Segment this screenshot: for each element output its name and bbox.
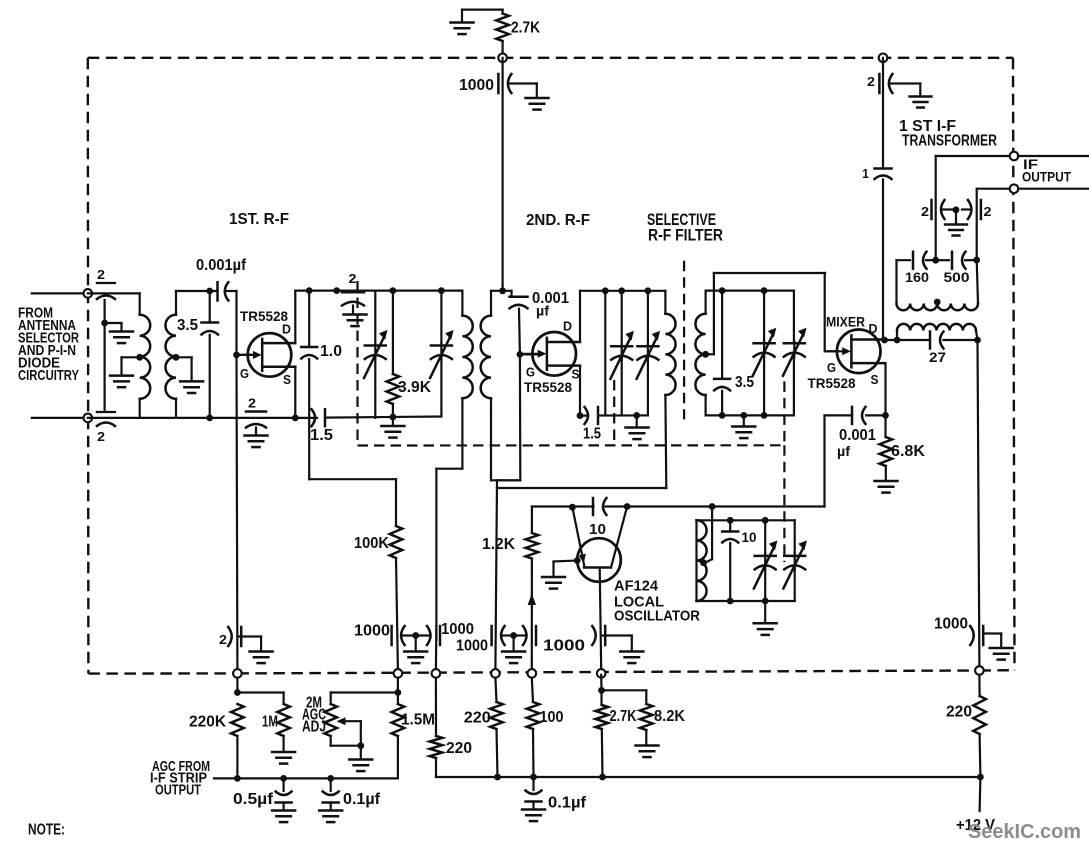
wire: 2nd drain riser — [579, 291, 581, 342]
node dot — [953, 206, 960, 213]
resistor 3.9K — [390, 287, 397, 294]
wire: 1st tank top rail — [295, 290, 462, 292]
wire: mixer output row — [885, 339, 930, 341]
svg-text:1.0: 1.0 — [320, 343, 342, 360]
wire: 2nd tank top rail — [580, 290, 665, 292]
svg-text:TR5528: TR5528 — [240, 308, 288, 324]
resistor 220 — [490, 702, 503, 729]
node dot: source join — [292, 415, 299, 422]
node dot: 2nd gate — [517, 351, 524, 358]
wire: 2nd bottom rail cont — [599, 414, 648, 416]
svg-text:2: 2 — [867, 74, 875, 89]
svg-text:1M: 1M — [262, 714, 278, 731]
wire: 220K drop — [236, 678, 238, 693]
wire: 220 drop — [435, 678, 437, 736]
node dot — [357, 742, 364, 749]
node A dot — [101, 320, 108, 327]
wire: filter bottom rail — [706, 414, 794, 416]
variable capacitor — [762, 517, 769, 524]
node: input feedthrough bottom — [84, 414, 93, 423]
arrow: injection direction — [528, 594, 536, 606]
resistor 2.7K — [600, 690, 602, 705]
inductor: antenna transformer primary — [139, 293, 141, 314]
svg-text:TR5528: TR5528 — [808, 375, 856, 391]
node: B+ feedthrough — [498, 54, 507, 63]
wire: secondary centre tap to ground — [173, 354, 180, 361]
capacitor 1.5 series — [597, 407, 600, 424]
wire: oscillator base drop — [600, 568, 602, 670]
node: feedthrough — [432, 669, 441, 678]
wire: 1st R-F gate lead — [237, 354, 254, 356]
svg-text:3.9K: 3.9K — [398, 379, 431, 396]
wire: IF output lower lead — [1018, 188, 1089, 190]
node dot — [977, 774, 984, 781]
wire: 2nd gate drop — [519, 354, 522, 480]
svg-text:2.7K: 2.7K — [511, 20, 540, 37]
wire: 1st tank bottom rail right — [325, 417, 441, 418]
node dot — [719, 412, 726, 419]
wire: tank feed — [711, 507, 713, 560]
svg-text:G: G — [526, 365, 535, 380]
svg-text:8.2K: 8.2K — [654, 708, 685, 725]
transistor TR5528 mixer — [837, 330, 881, 374]
svg-text:1000: 1000 — [543, 638, 585, 655]
svg-text:D: D — [869, 321, 878, 336]
svg-text:OUTPUT: OUTPUT — [1022, 169, 1071, 185]
ground — [245, 434, 268, 437]
capacitor 3.5 — [206, 288, 213, 295]
wire: feed down to 2nd R-F — [502, 58, 504, 291]
wire: gang dashed riser left — [356, 281, 358, 446]
wire: antenna stub top — [32, 292, 88, 294]
node: feedthrough — [491, 669, 500, 678]
svg-text:2: 2 — [219, 632, 227, 647]
inductor: 2nd tank coil — [664, 291, 666, 314]
wire: secondary left down — [896, 331, 898, 341]
wire: bottom shield dashed edge mid — [237, 671, 979, 674]
capacitor 1000 bypass osc base — [604, 626, 607, 645]
node: feedthrough — [528, 669, 537, 678]
ground — [110, 374, 133, 377]
svg-text:2: 2 — [97, 267, 105, 282]
wire: 1st R-F source riser — [294, 367, 296, 418]
wire: mixer drain lead — [883, 338, 885, 341]
wire: antenna stub bottom — [32, 417, 88, 419]
wire: 220 drop 2 — [495, 678, 496, 702]
node dot — [234, 689, 241, 696]
ground — [910, 95, 932, 98]
wire: cap drop osc feed — [531, 559, 533, 670]
svg-text:0.001µf: 0.001µf — [196, 257, 247, 274]
wire: tank box right — [977, 260, 978, 304]
capacitor 27 — [929, 332, 932, 349]
wire: mixer source lead — [885, 362, 886, 364]
svg-text:D: D — [563, 319, 572, 334]
node dot — [974, 337, 981, 344]
transistor AF124 — [577, 538, 621, 582]
wire: node to 220 — [978, 675, 980, 696]
svg-text:TRANSFORMER: TRANSFORMER — [902, 133, 997, 150]
node dot — [598, 687, 605, 694]
capacitor 1000 bypass — [497, 74, 500, 93]
svg-text:27: 27 — [929, 349, 946, 365]
svg-text:G: G — [827, 360, 836, 375]
svg-text:220: 220 — [946, 704, 972, 721]
svg-text:1000: 1000 — [934, 616, 968, 633]
svg-text:10: 10 — [589, 521, 606, 538]
variable capacitor — [645, 287, 652, 294]
svg-text:OSCILLATOR: OSCILLATOR — [614, 608, 700, 625]
wire: osc tank bottom rail — [697, 600, 795, 602]
resistor 2.7K — [496, 14, 509, 42]
capacitor 10 feedback — [592, 498, 595, 515]
capacitor 2 antenna bottom — [97, 411, 115, 413]
wire: osc tank top rail — [697, 519, 795, 521]
wire: base ground tap — [574, 557, 581, 564]
wire: trimmer ground tap — [105, 322, 122, 324]
resistor 220 — [973, 696, 986, 734]
wire: 1000 pair drops — [435, 626, 438, 669]
wire: selective filter dashed boundary — [683, 261, 685, 420]
node dot — [412, 632, 419, 639]
node dot — [624, 503, 631, 510]
svg-text:220: 220 — [446, 740, 472, 757]
svg-text:2.7K: 2.7K — [610, 708, 637, 725]
svg-text:0.1µf: 0.1µf — [343, 791, 381, 808]
wire: oscillator top row right — [606, 505, 825, 507]
wire: bottom shield dashed edge right — [979, 669, 1014, 672]
inductor: oscillator coil — [695, 520, 697, 601]
wire: IF output upper lead — [1018, 155, 1089, 157]
svg-text:1000: 1000 — [456, 638, 488, 655]
node: B+ feedthrough right — [879, 54, 888, 63]
capacitor 1000 bypass — [535, 626, 538, 645]
svg-text:2ND. R-F: 2ND. R-F — [526, 212, 590, 229]
svg-text:160: 160 — [905, 270, 929, 285]
node dot — [327, 775, 334, 782]
wire: left shield dashed edge — [87, 58, 90, 674]
inductor: 1st tank coil — [461, 291, 463, 316]
capacitor 1.0 — [306, 287, 313, 294]
svg-text:1000: 1000 — [459, 77, 494, 94]
wire: 100 drop — [532, 678, 533, 702]
node dot — [510, 632, 517, 639]
ground — [740, 412, 747, 419]
svg-text:6.8K: 6.8K — [891, 443, 925, 460]
svg-text:1.2K: 1.2K — [482, 536, 515, 553]
node: feedthrough — [394, 669, 403, 678]
svg-text:2: 2 — [97, 429, 105, 444]
svg-text:0.001: 0.001 — [839, 427, 876, 444]
svg-text:220: 220 — [464, 710, 491, 727]
svg-text:TR5528: TR5528 — [524, 379, 572, 395]
wire: oscillator top row — [532, 505, 594, 507]
wire: 2nd gate riser — [518, 309, 521, 355]
svg-text:1ST. R-F: 1ST. R-F — [229, 211, 289, 228]
svg-text:1: 1 — [862, 166, 869, 181]
svg-text:3.5: 3.5 — [177, 317, 198, 334]
node: feedthrough — [597, 669, 606, 678]
wire: gang dashed link to oscillator — [783, 381, 785, 445]
variable capacitor — [438, 287, 445, 294]
wire: 220K-1M link — [237, 691, 283, 693]
svg-text:S: S — [871, 372, 879, 387]
wire: filter output rail to mixer — [714, 272, 825, 274]
node: input feedthrough top — [84, 289, 93, 298]
wire: IF primary feed — [882, 58, 884, 169]
variable capacitor — [374, 291, 376, 345]
ground — [272, 809, 295, 812]
ground — [110, 330, 133, 333]
resistor 1.5M — [392, 704, 405, 736]
node: IF output lower — [1010, 184, 1019, 193]
ground — [522, 808, 545, 811]
inductor: filter coil — [704, 291, 706, 314]
svg-text:3.5: 3.5 — [735, 374, 754, 391]
wire: tank box left — [895, 260, 897, 303]
wire: gate line drop — [497, 479, 520, 481]
svg-text:1000: 1000 — [354, 623, 390, 640]
wire: gate riser 1st R-F — [235, 291, 237, 355]
ground — [542, 576, 565, 579]
capacitor 2 on rail — [333, 287, 340, 294]
node dot — [395, 689, 402, 696]
svg-text:100: 100 — [540, 709, 564, 726]
node dot — [530, 774, 537, 781]
svg-text:0.5µf: 0.5µf — [233, 791, 274, 808]
wire: input top rail — [88, 292, 140, 294]
wire: 1st tank bottom rail left — [295, 417, 317, 419]
ground — [415, 636, 417, 651]
svg-text:R-F FILTER: R-F FILTER — [648, 227, 723, 245]
resistor 100 — [527, 702, 540, 729]
node dot: drain junction — [881, 337, 888, 344]
wire: 2nd gate lead — [520, 353, 538, 355]
wire: filter return — [497, 487, 666, 489]
svg-text:SeekIC.com: SeekIC.com — [968, 821, 1081, 843]
wire: IF return vertical — [978, 340, 980, 666]
node: bottom right feedthrough — [975, 666, 984, 675]
transistor TR5528 1st R-F — [248, 333, 292, 377]
wire: filter output tap — [702, 351, 709, 358]
wire: 2nd tank bottom rail — [580, 415, 588, 417]
capacitor 1.5 series — [324, 409, 327, 426]
ground — [319, 809, 342, 812]
svg-text:500: 500 — [944, 270, 970, 285]
ground — [512, 636, 514, 651]
node dot — [762, 598, 769, 605]
svg-text:220K: 220K — [189, 714, 226, 731]
wire: filter top rail — [706, 290, 794, 292]
ground — [461, 10, 463, 22]
ground — [526, 97, 549, 100]
svg-text:2: 2 — [984, 204, 992, 219]
ground — [620, 650, 643, 653]
wire: top feed horizontal — [462, 9, 503, 11]
capacitor 10 tank — [727, 517, 734, 524]
ground — [250, 650, 273, 653]
wire: 220 to bus — [978, 734, 981, 777]
wire: 2nd input coil return — [490, 415, 492, 480]
svg-text:2: 2 — [921, 204, 929, 219]
variable capacitor — [618, 287, 625, 294]
node dot — [932, 257, 939, 264]
wire: 100K feed — [308, 418, 310, 479]
wire: gang dashed bottom — [358, 444, 785, 446]
node dot — [599, 774, 606, 781]
wire: 1.5M top — [397, 678, 399, 704]
wire: plain branch — [602, 287, 609, 294]
svg-text:AF124: AF124 — [614, 578, 659, 595]
inductor: IF secondary — [897, 324, 976, 331]
svg-text:CIRCUITRY: CIRCUITRY — [18, 367, 79, 384]
svg-text:S: S — [572, 367, 580, 382]
svg-text:1.5: 1.5 — [583, 426, 601, 443]
variable capacitor — [793, 291, 795, 343]
resistor 220K — [231, 704, 244, 736]
ground — [344, 313, 367, 316]
node dot — [280, 775, 287, 782]
svg-text:NOTE:: NOTE: — [28, 822, 65, 839]
wire: gang dashed riser mid — [613, 380, 615, 446]
wire: 1st R-F drain riser — [294, 291, 296, 344]
resistor 220 — [430, 736, 443, 758]
node: feedthrough — [233, 669, 242, 678]
svg-text:2: 2 — [349, 271, 357, 286]
svg-text:2: 2 — [248, 396, 256, 411]
node dot — [234, 775, 241, 782]
ground — [764, 601, 766, 622]
wire: 1st coil return — [461, 403, 463, 469]
node dot — [761, 412, 768, 419]
wire: +12V tap — [978, 777, 981, 811]
wire: mixer gate riser — [824, 273, 826, 351]
wire: bottom shield dashed edge left — [88, 672, 237, 675]
node dot: 3.9K bottom — [390, 414, 397, 421]
resistor 1.2K — [531, 507, 533, 534]
ground — [180, 380, 203, 383]
wire: 2nd input top rail — [491, 290, 512, 292]
node dot — [494, 774, 501, 781]
node: IF output upper — [1010, 152, 1019, 161]
inductor: antenna transformer secondary — [175, 291, 177, 315]
svg-text:OUTPUT: OUTPUT — [155, 783, 201, 799]
svg-text:1.5M: 1.5M — [401, 712, 435, 729]
wire: 2nd source riser — [579, 366, 581, 416]
resistor 100K — [395, 479, 397, 526]
node dot: gate 1st R-F — [233, 352, 240, 359]
ground — [955, 210, 957, 223]
variable capacitor — [761, 287, 768, 294]
node dot — [569, 504, 576, 511]
wire: gate bias drop — [235, 355, 238, 669]
svg-text:G: G — [240, 366, 249, 381]
wire: input bottom rail — [88, 417, 140, 419]
wire: upper IF tap — [936, 155, 1010, 157]
ground — [272, 751, 295, 754]
node dot: source junction — [882, 412, 889, 419]
variable capacitor — [794, 520, 796, 555]
svg-text:D: D — [282, 322, 291, 337]
wire: primary centre tap to ground — [136, 354, 143, 361]
wire: oscillator injection riser — [823, 415, 825, 506]
ground — [636, 744, 659, 747]
svg-text:µf: µf — [837, 443, 850, 459]
node dot — [973, 257, 980, 264]
resistor 6.8K — [884, 415, 886, 437]
ground — [392, 417, 394, 425]
svg-text:100K: 100K — [354, 535, 389, 552]
ground — [990, 647, 1013, 650]
wire: antenna trimmer vertical — [103, 300, 105, 411]
resistor 8.2K — [640, 704, 653, 730]
svg-text:0.1µf: 0.1µf — [548, 795, 587, 812]
wire: secondary top rail — [176, 290, 218, 292]
ground — [360, 746, 362, 758]
svg-text:10: 10 — [742, 529, 757, 545]
node dot: source join 2nd — [577, 412, 584, 419]
wire: secondary bottom joins rail — [140, 417, 296, 419]
svg-text:1000: 1000 — [441, 621, 474, 638]
wire: pot link — [331, 691, 398, 693]
ground — [875, 480, 898, 483]
capacitor 3.5 filter — [719, 287, 726, 294]
capacitor 0.001 uf mixer — [866, 414, 886, 416]
transistor TR5528 2nd R-F — [532, 332, 576, 376]
node dot — [727, 598, 734, 605]
node dot: B+ feed join — [499, 287, 506, 294]
wire: 8.2K link — [602, 689, 647, 691]
resistor 1M — [277, 704, 290, 736]
wire: osc base below node — [600, 675, 602, 691]
wire: AGC bus — [214, 777, 398, 779]
ground — [636, 415, 638, 426]
svg-text:S: S — [283, 372, 291, 387]
svg-text:MIXER: MIXER — [826, 314, 865, 330]
wire: top shield/B+ dashed edge — [88, 57, 1013, 59]
node dot — [894, 337, 901, 344]
wire: lower IF tap — [977, 188, 1010, 190]
svg-text:µf: µf — [536, 303, 549, 319]
node dot — [709, 503, 716, 510]
wire: supply bus — [436, 776, 980, 778]
svg-text:1.5: 1.5 — [310, 427, 333, 444]
inductor: 2nd R-F input coil — [490, 291, 492, 316]
node dot: tank ground — [633, 412, 640, 419]
wire: right shield dashed edge — [1013, 58, 1015, 670]
wire: secondary right down — [976, 331, 978, 341]
inductor: IF primary — [897, 304, 979, 311]
